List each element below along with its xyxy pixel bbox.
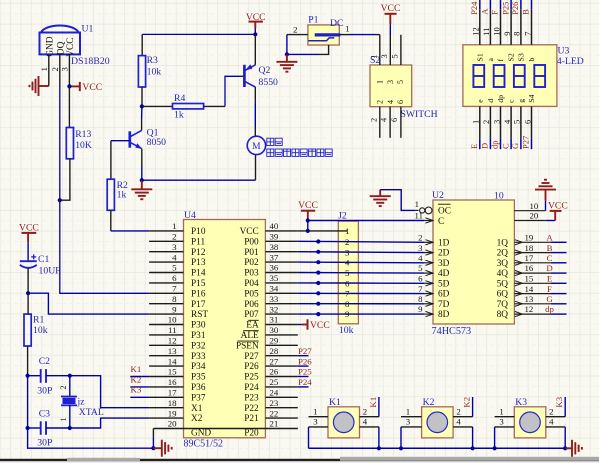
- svg-text:11: 11: [168, 325, 176, 335]
- svg-text:1: 1: [415, 199, 419, 209]
- VCC port on top rail: [249, 21, 263, 23]
- svg-text:P1: P1: [308, 15, 318, 26]
- sensor U1 DS18B20 TO-92 body: [41, 25, 79, 32]
- svg-text:1: 1: [406, 406, 410, 416]
- svg-text:X2: X2: [191, 414, 203, 424]
- wire X2 net: [70, 418, 149, 428]
- svg-text:P25: P25: [298, 367, 312, 377]
- svg-text:2: 2: [59, 385, 68, 389]
- svg-text:S3: S3: [517, 53, 526, 61]
- svg-text:P31: P31: [191, 331, 206, 341]
- wire R1 bottom: [27, 346, 29, 376]
- svg-text:33: 33: [270, 294, 279, 304]
- K3 pin1 wire: [495, 416, 515, 418]
- svg-text:K3: K3: [131, 385, 142, 395]
- ground at button bus: [565, 447, 572, 449]
- svg-text:2: 2: [481, 120, 491, 124]
- svg-text:4: 4: [549, 417, 554, 427]
- svg-text:38: 38: [270, 242, 279, 252]
- S2 pin 5 wire: [400, 35, 402, 65]
- S2 pin 2 wire: [379, 107, 381, 138]
- junction R3/R4/Q1 collector: [140, 104, 144, 108]
- wire OC trace: [380, 190, 415, 211]
- svg-text:10: 10: [530, 201, 539, 211]
- svg-text:P30: P30: [191, 321, 206, 331]
- wire VCC node to R13 top: [68, 86, 70, 127]
- junction C3/XTAL/X2: [68, 426, 72, 430]
- svg-text:5Q: 5Q: [497, 279, 509, 289]
- MCU U4 89C51/52 body: [184, 220, 266, 438]
- svg-text:P23: P23: [244, 393, 259, 403]
- resistor R4: [173, 104, 204, 109]
- svg-text:7: 7: [418, 284, 423, 294]
- svg-text:25: 25: [270, 377, 279, 387]
- wires P00-P07 U4 to J2 to U2 with junctions: [298, 240, 339, 242]
- svg-text:16: 16: [525, 263, 534, 273]
- svg-text:K1: K1: [131, 364, 142, 374]
- svg-text:2: 2: [50, 67, 60, 71]
- U2 pin1 wire+bubbles: [415, 209, 419, 211]
- svg-text:2: 2: [418, 233, 422, 243]
- svg-text:4: 4: [363, 417, 368, 427]
- svg-text:ALE: ALE: [241, 331, 259, 341]
- svg-text:7: 7: [172, 284, 177, 294]
- svg-text:30: 30: [270, 325, 279, 335]
- U3 digit segments: [473, 65, 484, 87]
- svg-text:4: 4: [172, 252, 177, 262]
- S2 pin 6 wire: [400, 107, 402, 138]
- svg-text:31: 31: [270, 315, 279, 325]
- S2 pin 3 wire with VCC: [389, 35, 391, 65]
- svg-text:20: 20: [530, 211, 539, 221]
- svg-text:P20: P20: [244, 428, 259, 438]
- svg-text:1: 1: [499, 406, 503, 416]
- svg-text:40: 40: [270, 221, 279, 231]
- P1 barrel symbol: [315, 33, 341, 36]
- svg-text:C2: C2: [39, 356, 50, 367]
- svg-text:8050: 8050: [147, 137, 167, 148]
- svg-text:2: 2: [293, 24, 297, 34]
- svg-text:A: A: [480, 8, 490, 15]
- svg-text:3: 3: [491, 120, 501, 124]
- connector P1 box: [308, 25, 339, 45]
- svg-text:K2: K2: [131, 374, 142, 384]
- svg-text:89C51/52: 89C51/52: [184, 439, 223, 450]
- junction U1 pin3/VCC: [67, 84, 71, 88]
- ground at Q1 emitter: [141, 180, 143, 189]
- wire P1 to S2 pin 1: [376, 34, 380, 36]
- capacitor C3 30P: [40, 421, 42, 435]
- svg-text:74HC573: 74HC573: [432, 326, 472, 337]
- svg-text:3D: 3D: [438, 259, 450, 269]
- svg-text:P24: P24: [298, 377, 312, 387]
- svg-text:13: 13: [168, 346, 177, 356]
- svg-text:1: 1: [172, 221, 176, 231]
- svg-text:1Q: 1Q: [497, 238, 509, 248]
- svg-text:PSEN: PSEN: [236, 341, 259, 351]
- svg-text:2: 2: [369, 118, 378, 122]
- svg-text:11: 11: [415, 211, 423, 221]
- svg-text:E: E: [469, 144, 479, 149]
- svg-text:20: 20: [168, 419, 177, 429]
- svg-text:P15: P15: [191, 279, 206, 289]
- VCC port mid (U4 pin40 / J2): [301, 210, 315, 212]
- wire Q2 base pin: [241, 75, 245, 77]
- svg-text:2: 2: [549, 406, 553, 416]
- svg-text:6: 6: [396, 100, 405, 104]
- svg-text:3Q: 3Q: [497, 259, 509, 269]
- svg-text:P25: P25: [500, 2, 510, 15]
- svg-text:P13: P13: [191, 258, 206, 268]
- svg-text:3: 3: [499, 417, 504, 427]
- svg-text:10: 10: [168, 315, 177, 325]
- svg-text:4-LED: 4-LED: [557, 56, 584, 67]
- wire R4 right pin: [204, 105, 225, 107]
- junction C1/R1/RST: [26, 291, 30, 295]
- svg-text:35: 35: [270, 273, 279, 283]
- svg-text:DQ: DQ: [56, 41, 66, 55]
- svg-text:D: D: [480, 143, 490, 149]
- svg-text:10: 10: [494, 190, 504, 201]
- svg-text:7D: 7D: [438, 300, 450, 310]
- svg-text:P27: P27: [244, 352, 259, 362]
- svg-text:1: 1: [345, 24, 349, 34]
- svg-text:10k: 10k: [339, 325, 354, 336]
- svg-text:6: 6: [522, 120, 532, 124]
- svg-text:dp: dp: [496, 95, 505, 103]
- wire DQ: U1 pin2 down to P16: [60, 87, 149, 293]
- svg-text:VCC: VCC: [298, 200, 318, 211]
- svg-text:M: M: [252, 142, 261, 152]
- svg-text:c: c: [507, 99, 516, 103]
- svg-text:dp: dp: [490, 141, 500, 150]
- svg-text:P07: P07: [244, 310, 259, 320]
- svg-text:10UF: 10UF: [39, 266, 62, 277]
- wire R1 top: [27, 293, 29, 314]
- svg-text:SWITCH: SWITCH: [401, 109, 438, 120]
- svg-text:P04: P04: [244, 279, 259, 289]
- svg-text:P34: P34: [191, 362, 206, 372]
- svg-text:1D: 1D: [438, 238, 450, 248]
- svg-text:1: 1: [471, 120, 481, 124]
- wire Q1 collector up: [141, 118, 143, 130]
- ground at U1 pin 1: [39, 85, 49, 87]
- svg-text:23: 23: [270, 398, 279, 408]
- K1 pin2 wire: [360, 416, 379, 418]
- svg-text:3: 3: [418, 243, 423, 253]
- crystal jz XTAL: [61, 396, 77, 398]
- svg-text:4: 4: [386, 100, 395, 104]
- svg-text:17: 17: [525, 253, 534, 263]
- svg-text:13: 13: [525, 294, 534, 304]
- svg-text:P37: P37: [191, 393, 206, 403]
- svg-text:XTAL: XTAL: [79, 407, 104, 418]
- svg-text:P10: P10: [191, 227, 206, 237]
- svg-text:2: 2: [172, 232, 176, 242]
- wire R2 top to Q1 base: [110, 141, 112, 180]
- svg-text:18: 18: [525, 243, 534, 253]
- svg-text:8: 8: [512, 32, 522, 36]
- svg-text:8550: 8550: [259, 77, 279, 88]
- svg-text:e: e: [475, 99, 484, 103]
- svg-text:10k: 10k: [33, 325, 48, 336]
- svg-text:P27: P27: [521, 136, 531, 149]
- svg-text:3: 3: [406, 417, 411, 427]
- svg-text:dp: dp: [545, 304, 554, 314]
- svg-text:EA: EA: [246, 321, 259, 331]
- svg-text:RST: RST: [191, 310, 208, 320]
- svg-text:14: 14: [525, 284, 534, 294]
- svg-text:B: B: [547, 243, 553, 253]
- svg-text:4Q: 4Q: [497, 269, 509, 279]
- svg-text:1k: 1k: [117, 189, 127, 200]
- svg-text:K3: K3: [515, 397, 527, 408]
- junction DQ/R13: [58, 198, 62, 202]
- svg-text:24: 24: [270, 388, 279, 398]
- K2 pin2 wire: [453, 416, 473, 418]
- capacitor C2 30P: [40, 369, 42, 383]
- junction GND rail: [151, 446, 155, 450]
- label fan chinese: [267, 138, 274, 145]
- wire R4 to Q2 base: [225, 76, 241, 106]
- K2 pin4 wire: [453, 426, 473, 428]
- svg-text:5D: 5D: [438, 279, 450, 289]
- VCC port at U1 pin 3: [69, 85, 79, 87]
- svg-text:15: 15: [525, 274, 534, 284]
- svg-text:11: 11: [481, 28, 491, 36]
- svg-text:P26: P26: [298, 356, 312, 366]
- ground for U2 OC: [370, 195, 391, 197]
- U4 right pin wires: [265, 230, 297, 232]
- svg-text:1: 1: [39, 67, 49, 71]
- svg-text:P12: P12: [191, 248, 206, 258]
- svg-text:P00: P00: [244, 237, 259, 247]
- wire Q1 base: [111, 140, 130, 142]
- svg-text:C: C: [438, 217, 444, 227]
- svg-text:19: 19: [525, 233, 534, 243]
- svg-text:G: G: [546, 294, 553, 304]
- svg-text:5: 5: [172, 263, 177, 273]
- svg-text:P11: P11: [191, 237, 205, 247]
- svg-text:28: 28: [270, 346, 279, 356]
- svg-text:P22: P22: [244, 404, 259, 414]
- svg-text:12: 12: [168, 336, 177, 346]
- wire Q2 collector to motor: [254, 87, 256, 104]
- wire X1 net: [70, 376, 149, 408]
- capacitor C1 10UF: [20, 260, 37, 262]
- svg-text:P24: P24: [244, 383, 259, 393]
- svg-text:P26: P26: [244, 362, 259, 372]
- svg-text:5: 5: [512, 120, 522, 124]
- P1 pin 1 wire: [339, 34, 349, 36]
- svg-text:6: 6: [418, 274, 423, 284]
- wire top rail R3 to VCC/Q2: [142, 33, 255, 35]
- svg-text:VCC: VCC: [240, 227, 259, 237]
- svg-text:P26: P26: [510, 2, 520, 15]
- svg-text:6: 6: [172, 273, 177, 283]
- resistor R1: [24, 314, 31, 346]
- svg-text:d: d: [486, 99, 495, 103]
- junction pin40/VCC stem: [306, 229, 310, 233]
- wire Q1 emitter down: [141, 149, 143, 166]
- svg-text:6D: 6D: [438, 290, 450, 300]
- wire Q1 emitter to motor bottom: [142, 179, 256, 181]
- svg-text:10k: 10k: [147, 66, 162, 77]
- svg-text:P33: P33: [191, 352, 206, 362]
- wire U4 VCC pin40 to J2 pin1: [298, 230, 347, 232]
- svg-text:P16: P16: [191, 289, 206, 299]
- svg-text:9: 9: [502, 32, 512, 36]
- svg-text:15: 15: [168, 367, 177, 377]
- svg-text:F: F: [547, 284, 552, 294]
- VCC port at U4 EA pin31: [298, 324, 302, 326]
- U2 pin20 wire to VCC: [514, 220, 545, 222]
- push button K2: [422, 407, 454, 438]
- wire to C2: [28, 375, 41, 377]
- svg-text:GND: GND: [191, 428, 211, 438]
- svg-text:8Q: 8Q: [497, 310, 509, 320]
- ground below P1: [286, 54, 288, 61]
- svg-text:19: 19: [168, 408, 177, 418]
- svg-text:P01: P01: [244, 248, 259, 258]
- svg-text:VCC: VCC: [381, 3, 401, 14]
- svg-text:P17: P17: [191, 300, 206, 310]
- wire P1 pin2 drop: [286, 35, 288, 55]
- svg-text:R1: R1: [33, 314, 44, 325]
- svg-text:DC: DC: [330, 18, 343, 29]
- resistor network J2 box: [338, 221, 358, 324]
- svg-text:VCC: VCC: [310, 320, 330, 331]
- svg-text:9: 9: [172, 304, 177, 314]
- svg-text:jz: jz: [77, 396, 86, 407]
- svg-text:P25: P25: [244, 373, 259, 383]
- svg-text:K2: K2: [462, 397, 472, 408]
- svg-text:37: 37: [270, 252, 279, 262]
- svg-text:P02: P02: [244, 258, 259, 268]
- K3 pin4 wire: [546, 426, 565, 428]
- svg-text:VCC: VCC: [82, 82, 102, 93]
- svg-text:12: 12: [471, 27, 481, 36]
- svg-text:5: 5: [391, 54, 400, 58]
- svg-text:1: 1: [375, 80, 384, 84]
- wire button ground bus: [309, 447, 566, 449]
- svg-text:U3: U3: [558, 46, 570, 57]
- svg-text:R4: R4: [174, 93, 185, 104]
- svg-text:3: 3: [386, 80, 395, 84]
- svg-text:K1: K1: [368, 397, 378, 408]
- svg-text:VCC: VCC: [66, 38, 76, 57]
- svg-text:U4: U4: [184, 210, 196, 221]
- junction Q1 emitter/ground/motor: [140, 178, 144, 182]
- S2 pin 4 wire: [389, 107, 391, 138]
- svg-text:5: 5: [418, 263, 423, 273]
- svg-text:S2: S2: [507, 53, 516, 61]
- K3 pin2 wire: [546, 416, 565, 418]
- wire C net: VCC to U2 pin11: [308, 220, 424, 222]
- U1 pin 3 wire (VCC): [68, 54, 70, 86]
- U1 pin 1 wire (GND): [48, 54, 50, 86]
- svg-text:22: 22: [270, 408, 279, 418]
- svg-text:P36: P36: [191, 383, 206, 393]
- display U3 4-LED body: [463, 45, 557, 107]
- svg-text:3: 3: [380, 54, 389, 58]
- svg-text:3: 3: [60, 67, 70, 72]
- push button K1: [328, 407, 360, 438]
- svg-text:P21: P21: [244, 414, 259, 424]
- svg-text:32: 32: [270, 304, 279, 314]
- wire C2 to crystal node: [46, 375, 70, 377]
- junction rail/C3: [26, 426, 30, 430]
- svg-text:K2: K2: [423, 397, 435, 408]
- svg-text:J2: J2: [338, 210, 347, 221]
- svg-text:K3: K3: [554, 396, 564, 407]
- svg-text:6: 6: [390, 118, 399, 122]
- svg-text:30P: 30P: [37, 437, 52, 448]
- wire Q2 emitter up: [254, 34, 256, 65]
- svg-text:S1: S1: [475, 53, 484, 61]
- svg-text:7Q: 7Q: [497, 300, 509, 310]
- svg-text:4: 4: [502, 119, 512, 124]
- wire to C3: [27, 376, 29, 428]
- push button K3: [514, 407, 546, 438]
- junctions on button bus: [377, 446, 381, 450]
- svg-text:18: 18: [168, 398, 177, 408]
- svg-text:1: 1: [313, 406, 317, 416]
- junction VCC stem / C wire: [306, 218, 310, 222]
- wire crystal bottom pin: [69, 405, 71, 428]
- net labels P27 P26 P25 P24: [298, 355, 309, 357]
- svg-text:P35: P35: [191, 373, 206, 383]
- svg-text:26: 26: [270, 367, 279, 377]
- svg-text:4: 4: [456, 417, 461, 427]
- svg-text:R13: R13: [75, 129, 91, 140]
- K3 pin3 wire: [495, 426, 515, 428]
- junction top rail / Q2 emitter: [253, 32, 257, 36]
- label fan polarity chinese: [267, 149, 274, 156]
- svg-text:X1: X1: [191, 404, 203, 414]
- ground at U4 GND: [153, 447, 161, 449]
- svg-text:2: 2: [375, 100, 384, 104]
- wire R3 bottom pin: [141, 87, 143, 106]
- K1 pin3 wire: [309, 426, 329, 428]
- svg-text:27: 27: [270, 356, 279, 366]
- P1 pin 3 wire to ground bus: [319, 45, 329, 54]
- svg-text:P03: P03: [244, 269, 259, 279]
- svg-text:GND: GND: [45, 36, 55, 57]
- resistor R3: [138, 56, 145, 87]
- svg-text:2Q: 2Q: [497, 249, 509, 259]
- svg-text:DS18B20: DS18B20: [71, 56, 110, 67]
- svg-text:8D: 8D: [438, 310, 450, 320]
- P1 switch lever symbol: [308, 38, 334, 41]
- svg-text:P14: P14: [191, 269, 206, 279]
- latch U2 74HC573 body: [433, 200, 514, 324]
- svg-text:A: A: [546, 233, 553, 243]
- wire C1 bottom to junction: [27, 268, 29, 293]
- svg-text:3: 3: [313, 417, 318, 427]
- P1 pin 2 wire: [287, 34, 308, 36]
- wire R13 bottom to DQ: [60, 159, 70, 200]
- svg-text:8: 8: [418, 294, 423, 304]
- svg-text:E: E: [547, 274, 552, 284]
- svg-text:P06: P06: [244, 300, 259, 310]
- motor M (fan): [247, 136, 265, 154]
- svg-text:1: 1: [59, 417, 68, 421]
- U4 left pin wires: [149, 230, 183, 232]
- svg-text:U1: U1: [82, 24, 94, 35]
- svg-text:U2: U2: [432, 190, 444, 201]
- K1 pin1 wire: [309, 416, 329, 418]
